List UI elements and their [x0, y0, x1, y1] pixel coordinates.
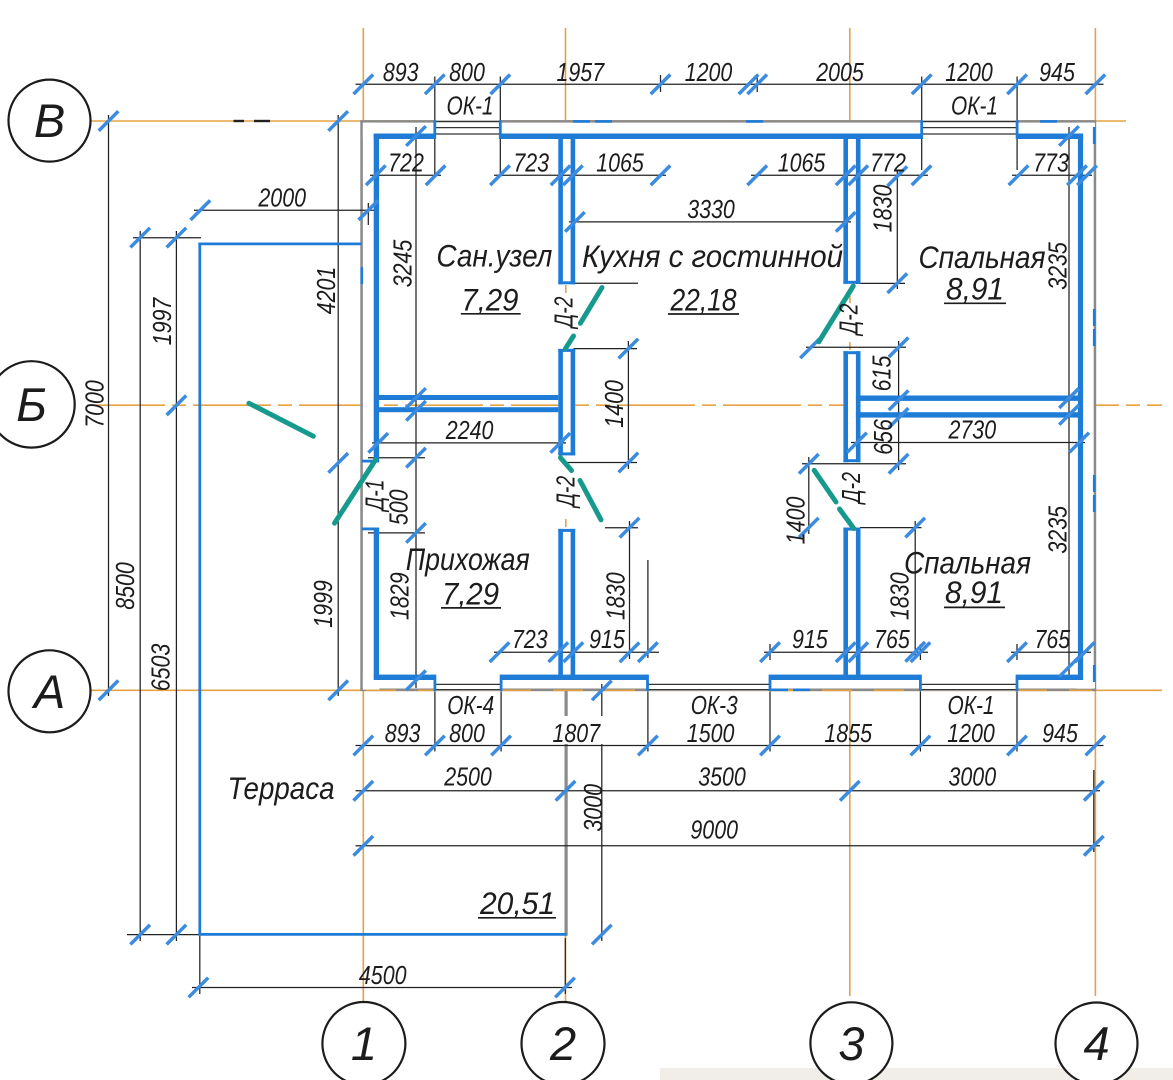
svg-text:800: 800 — [449, 718, 485, 748]
svg-text:9000: 9000 — [690, 815, 738, 845]
svg-text:А: А — [31, 665, 65, 718]
svg-text:7000: 7000 — [80, 380, 110, 428]
svg-text:3245: 3245 — [388, 239, 418, 287]
svg-text:ОК-4: ОК-4 — [447, 690, 494, 720]
svg-text:1400: 1400 — [780, 496, 810, 544]
svg-text:Д-2: Д-2 — [551, 475, 581, 509]
svg-text:ОК-1: ОК-1 — [447, 91, 494, 121]
svg-text:723: 723 — [512, 624, 548, 654]
svg-text:Д-1: Д-1 — [359, 480, 389, 513]
svg-text:1: 1 — [351, 1017, 377, 1070]
svg-text:2500: 2500 — [443, 762, 492, 792]
svg-text:723: 723 — [513, 147, 549, 177]
svg-text:945: 945 — [1039, 57, 1075, 87]
svg-text:1065: 1065 — [778, 147, 826, 177]
svg-text:772: 772 — [870, 147, 906, 177]
svg-text:8500: 8500 — [110, 562, 140, 610]
svg-text:7,29: 7,29 — [442, 576, 499, 612]
svg-text:ОК-1: ОК-1 — [948, 690, 995, 720]
svg-text:656: 656 — [868, 419, 898, 455]
svg-text:1400: 1400 — [599, 380, 629, 428]
svg-text:722: 722 — [388, 147, 424, 177]
svg-text:Д-2: Д-2 — [834, 303, 864, 337]
svg-text:1999: 1999 — [308, 580, 338, 628]
svg-text:1200: 1200 — [947, 718, 995, 748]
svg-text:1830: 1830 — [868, 184, 898, 232]
svg-text:1829: 1829 — [384, 572, 414, 620]
svg-text:1997: 1997 — [147, 296, 177, 345]
svg-text:893: 893 — [385, 718, 421, 748]
svg-text:ОК-1: ОК-1 — [951, 91, 998, 121]
svg-text:800: 800 — [449, 57, 485, 87]
svg-text:4: 4 — [1083, 1017, 1109, 1070]
svg-text:2730: 2730 — [948, 415, 997, 445]
svg-text:3: 3 — [838, 1017, 864, 1070]
svg-text:8,91: 8,91 — [945, 574, 1003, 610]
svg-text:8,91: 8,91 — [946, 271, 1004, 307]
svg-text:1200: 1200 — [685, 57, 733, 87]
svg-text:1957: 1957 — [557, 57, 606, 87]
svg-text:2240: 2240 — [445, 415, 494, 445]
svg-text:2005: 2005 — [815, 57, 864, 87]
svg-text:Д-2: Д-2 — [549, 296, 579, 330]
svg-text:1500: 1500 — [687, 718, 735, 748]
svg-text:20,51: 20,51 — [479, 885, 555, 921]
svg-text:1855: 1855 — [824, 718, 872, 748]
svg-text:1830: 1830 — [601, 572, 631, 620]
svg-text:893: 893 — [383, 57, 419, 87]
svg-text:3000: 3000 — [578, 784, 608, 832]
svg-text:Прихожая: Прихожая — [406, 541, 530, 577]
svg-text:945: 945 — [1042, 718, 1078, 748]
svg-text:2: 2 — [549, 1017, 576, 1070]
svg-text:7,29: 7,29 — [461, 281, 518, 317]
svg-text:4201: 4201 — [311, 267, 341, 315]
svg-text:3235: 3235 — [1042, 506, 1072, 554]
svg-text:Д-2: Д-2 — [836, 472, 866, 506]
svg-text:ОК-3: ОК-3 — [691, 690, 738, 720]
svg-text:765: 765 — [874, 624, 910, 654]
svg-text:Кухня с гостинной: Кухня с гостинной — [582, 238, 843, 274]
svg-text:773: 773 — [1033, 147, 1069, 177]
svg-text:615: 615 — [866, 355, 896, 391]
svg-text:1200: 1200 — [945, 57, 993, 87]
svg-text:3000: 3000 — [949, 762, 997, 792]
svg-text:В: В — [34, 94, 65, 147]
svg-text:Терраса: Терраса — [228, 770, 335, 806]
svg-text:22,18: 22,18 — [670, 282, 737, 318]
svg-text:Б: Б — [16, 378, 47, 431]
svg-text:4500: 4500 — [359, 960, 407, 990]
svg-text:6503: 6503 — [146, 643, 176, 691]
svg-text:1065: 1065 — [596, 147, 644, 177]
svg-text:Сан.узел: Сан.узел — [436, 238, 552, 274]
svg-text:765: 765 — [1034, 624, 1070, 654]
svg-text:2000: 2000 — [258, 183, 307, 213]
svg-text:915: 915 — [589, 624, 625, 654]
svg-text:3235: 3235 — [1042, 242, 1072, 290]
svg-text:3500: 3500 — [698, 762, 746, 792]
svg-text:1807: 1807 — [553, 718, 602, 748]
svg-text:915: 915 — [792, 624, 828, 654]
svg-text:3330: 3330 — [687, 194, 735, 224]
